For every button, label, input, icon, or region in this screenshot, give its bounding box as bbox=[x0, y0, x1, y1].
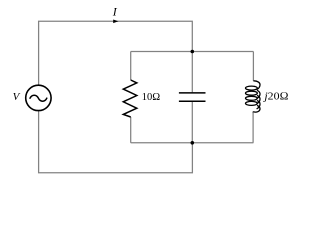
svg-text:j20Ω: j20Ω bbox=[262, 91, 288, 103]
svg-text:10Ω: 10Ω bbox=[142, 91, 161, 103]
svg-text:V: V bbox=[13, 91, 21, 103]
svg-text:I: I bbox=[112, 5, 118, 19]
